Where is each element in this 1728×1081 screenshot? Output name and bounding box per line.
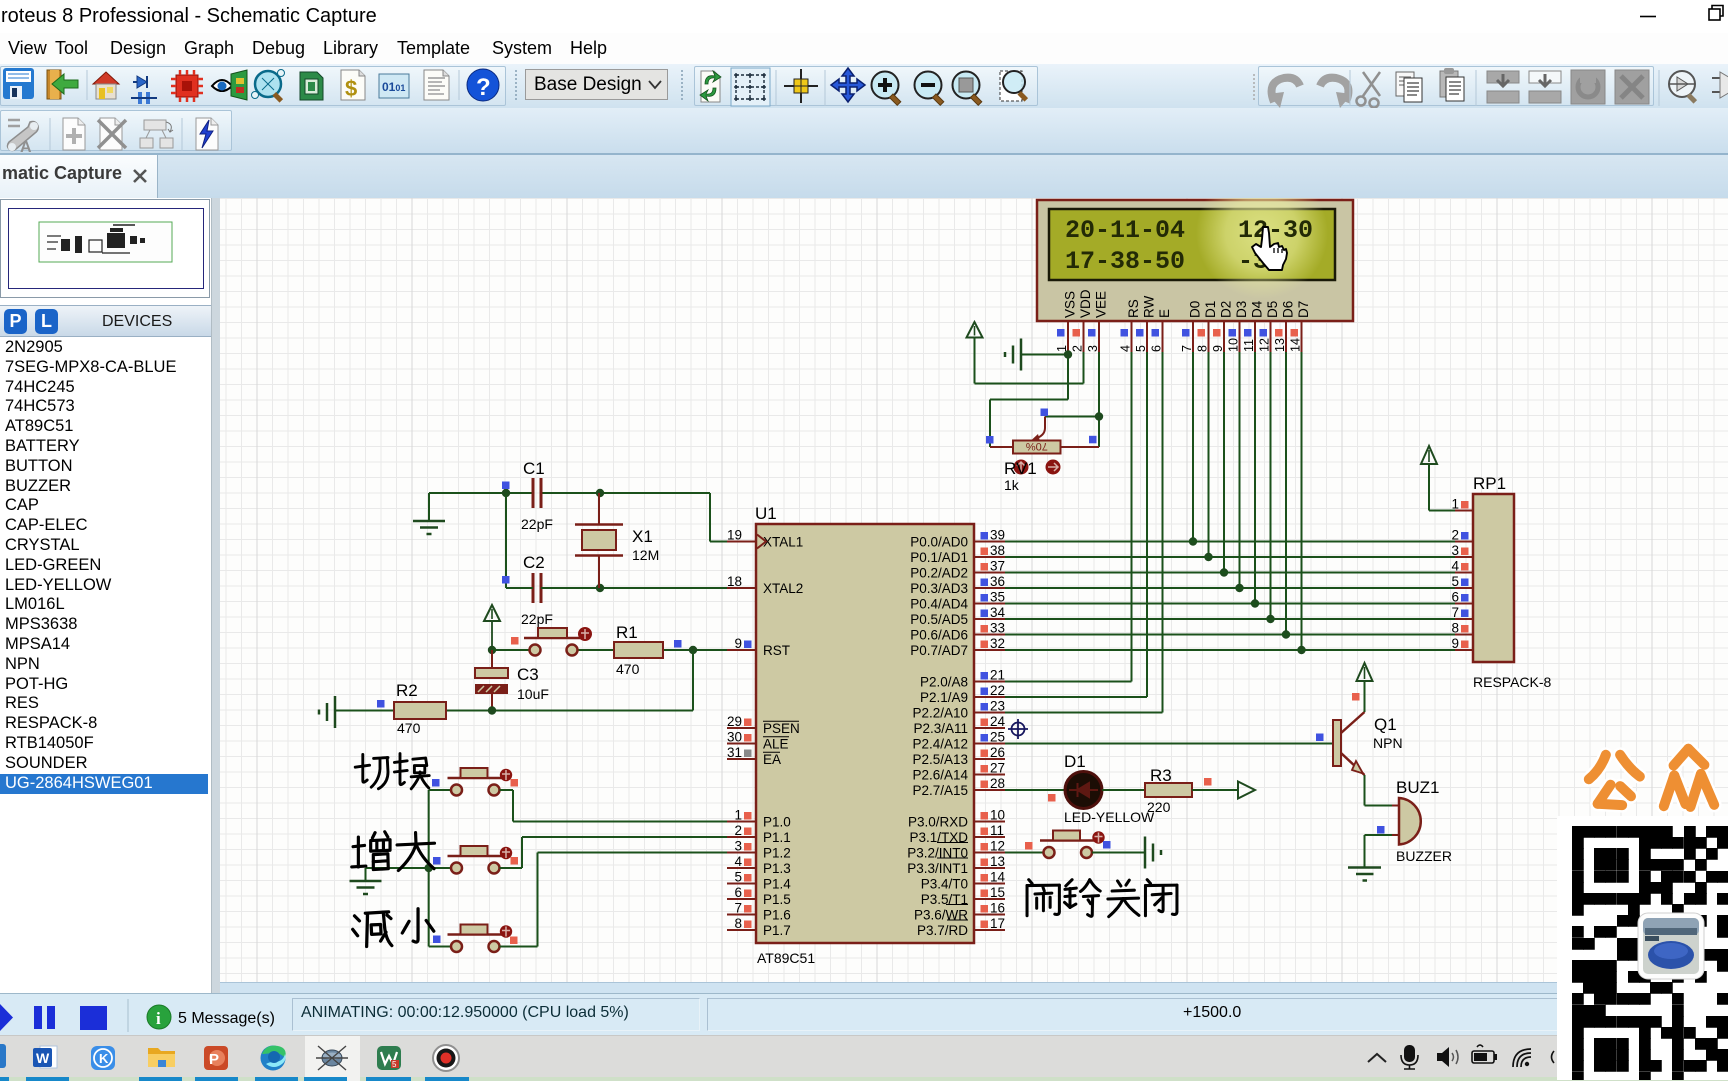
svg-text:PSEN: PSEN: [763, 721, 800, 736]
svg-text:P1.5: P1.5: [763, 892, 791, 907]
mouse glow highlight: [1196, 167, 1328, 299]
svg-text:K: K: [99, 1051, 109, 1066]
svg-text:P0.6/AD6: P0.6/AD6: [910, 627, 968, 642]
svg-text:P0.7/AD7: P0.7/AD7: [910, 643, 968, 658]
svg-text:36: 36: [990, 574, 1005, 589]
svg-text:34: 34: [990, 605, 1006, 620]
svg-text:U1: U1: [755, 504, 777, 523]
svg-text:7: 7: [1180, 345, 1194, 352]
svg-text:P2.3/A11: P2.3/A11: [913, 721, 968, 736]
svg-text:D1: D1: [1203, 301, 1218, 318]
svg-text:AT89C51: AT89C51: [757, 950, 815, 966]
svg-text:4: 4: [734, 854, 742, 869]
wire VDD net: [975, 338, 1084, 384]
svg-text:P1.3: P1.3: [763, 861, 791, 876]
wire E to P2.2: [1005, 352, 1163, 713]
svg-text:NPN: NPN: [1373, 735, 1403, 751]
svg-text:15: 15: [990, 885, 1005, 900]
svg-text:X1: X1: [632, 527, 653, 546]
svg-text:24: 24: [990, 714, 1006, 729]
svg-text:C1: C1: [523, 459, 545, 478]
svg-text:23: 23: [990, 699, 1005, 714]
svg-text:RST: RST: [763, 643, 790, 658]
svg-text:39: 39: [990, 528, 1005, 543]
svg-text:30: 30: [727, 730, 742, 745]
svg-text:3: 3: [734, 839, 742, 854]
svg-text:P2.6/A14: P2.6/A14: [912, 767, 968, 782]
svg-text:RESPACK-8: RESPACK-8: [1473, 674, 1552, 690]
ground below button rail: [350, 868, 382, 894]
wire Q1 emitter to buzzer: [1365, 775, 1393, 806]
svg-text:RP1: RP1: [1473, 474, 1506, 493]
svg-text:220: 220: [1147, 799, 1171, 815]
svg-text:16: 16: [990, 901, 1005, 916]
LCD text line 2 "17-38-50 -3": [1065, 247, 1268, 276]
LCD text line 1 "20-11-04 12-30": [1065, 216, 1313, 245]
resistor R2: [377, 700, 446, 719]
svg-text:P1.4: P1.4: [763, 876, 791, 891]
svg-text:D1: D1: [1064, 752, 1086, 771]
svg-text:P2.0/A8: P2.0/A8: [920, 674, 968, 689]
svg-text:BUZ1: BUZ1: [1396, 778, 1439, 797]
svg-text:D2: D2: [1219, 301, 1234, 318]
power terminal above Q1: [1357, 663, 1373, 681]
ground left of R2: [319, 696, 335, 728]
svg-text:11: 11: [990, 823, 1004, 838]
svg-text:35: 35: [990, 590, 1005, 605]
svg-text:P0.0/AD0: P0.0/AD0: [910, 534, 968, 549]
svg-text:6: 6: [1150, 345, 1164, 352]
ground near C1: [413, 493, 445, 534]
wire VSS net + junction: [990, 350, 1072, 447]
svg-text:P0.5/AD5: P0.5/AD5: [910, 612, 968, 627]
U1 right pin stubs, numbers and names: [907, 528, 1005, 938]
svg-text:9: 9: [734, 636, 742, 651]
potentiometer RV1: [986, 409, 1097, 475]
svg-text:12-30: 12-30: [1238, 216, 1313, 245]
svg-text:D7: D7: [1296, 301, 1311, 318]
wire R3 to output arrow: [1192, 789, 1238, 791]
wire P3.2 to alarm button: [1005, 852, 1043, 854]
wire R2 node: [336, 706, 693, 714]
wire D1 to R3: [1102, 789, 1145, 791]
svg-text:26: 26: [990, 745, 1005, 760]
svg-text:33: 33: [990, 621, 1005, 636]
LCD display LCD1 body: [1037, 200, 1353, 321]
wire C1-C2 link: [505, 493, 507, 588]
capacitor C1: [502, 478, 541, 508]
origin marker crosshair: [1008, 719, 1028, 739]
svg-text:22pF: 22pF: [521, 611, 553, 627]
svg-text:P1.1: P1.1: [763, 830, 791, 845]
svg-text:R3: R3: [1150, 766, 1172, 785]
svg-text:D0: D0: [1188, 301, 1203, 318]
svg-text:2: 2: [1451, 528, 1459, 543]
svg-text:P2.2/A10: P2.2/A10: [912, 705, 968, 720]
svg-text:37: 37: [990, 559, 1005, 574]
svg-text:VSS: VSS: [1063, 291, 1078, 318]
svg-text:13: 13: [990, 854, 1005, 869]
wire buzzer to ground: [1365, 835, 1393, 868]
svg-text:38: 38: [990, 543, 1005, 558]
svg-text:P3.0/RXD: P3.0/RXD: [908, 814, 968, 829]
svg-text:P1.2: P1.2: [763, 845, 791, 860]
button RESET: [511, 627, 592, 656]
svg-text:Q1: Q1: [1374, 715, 1397, 734]
wire XTAL2 net: [506, 584, 727, 592]
svg-text:31: 31: [727, 745, 742, 760]
microcontroller U1 body: [756, 524, 974, 943]
svg-text:1: 1: [734, 808, 742, 823]
ground near LCD VSS: [1005, 339, 1021, 371]
button SW1 (switch): [448, 768, 513, 796]
ground right of alarm button: [1145, 837, 1161, 869]
svg-text:32: 32: [990, 636, 1005, 651]
svg-text:ALE: ALE: [763, 736, 789, 751]
LED D1: [1048, 772, 1102, 809]
wire P2.4 to Q1 base: [1005, 734, 1333, 744]
svg-text:RW: RW: [1142, 295, 1157, 318]
U1 INT0/INT1/WR/RD overlines: [937, 843, 968, 921]
svg-text:P1.6: P1.6: [763, 907, 791, 922]
svg-text:D5: D5: [1265, 301, 1280, 318]
svg-text:7: 7: [734, 901, 742, 916]
power terminal above C3: [484, 605, 500, 650]
svg-text:P2.1/A9: P2.1/A9: [920, 690, 968, 705]
buzzer BUZ1: [1377, 798, 1421, 845]
svg-text:P0.1/AD1: P0.1/AD1: [910, 550, 968, 565]
LCD pin stubs, squares and pin numbers 1-14: [1055, 321, 1303, 352]
transistor Q1: [1333, 693, 1365, 775]
svg-text:470: 470: [616, 661, 640, 677]
U1 PSEN/ALE/EA overlines: [763, 721, 799, 752]
svg-text:i: i: [156, 1009, 161, 1028]
svg-text:R2: R2: [396, 681, 418, 700]
svg-text:W: W: [36, 1050, 50, 1066]
wire RST node: [488, 646, 727, 711]
svg-text:17-38-50: 17-38-50: [1065, 247, 1185, 276]
wire SW2 to P1.1: [500, 837, 728, 868]
LCD pin name labels: [1063, 289, 1312, 318]
svg-text:19: 19: [727, 528, 742, 543]
label 切换: [355, 754, 388, 788]
crystal X1: [575, 493, 623, 588]
capacitor C3: [475, 650, 508, 711]
svg-text:25: 25: [990, 730, 1005, 745]
svg-text:P2.5/A13: P2.5/A13: [912, 752, 968, 767]
svg-text:P0.2/AD2: P0.2/AD2: [910, 565, 968, 580]
svg-text:4: 4: [1119, 345, 1133, 352]
svg-text:P0.3/AD3: P0.3/AD3: [910, 581, 968, 596]
wire VEE net + junction: [1045, 352, 1103, 447]
svg-text:12M: 12M: [632, 547, 659, 563]
svg-text:10: 10: [1227, 338, 1241, 352]
svg-text:P3.4/T0: P3.4/T0: [921, 876, 968, 891]
svg-text:12: 12: [990, 839, 1005, 854]
svg-text:8: 8: [1451, 621, 1459, 636]
svg-text:5: 5: [392, 1060, 397, 1069]
wire alarm button to ground: [1092, 852, 1145, 854]
svg-text:E: E: [1157, 309, 1172, 318]
svg-text:5: 5: [1451, 574, 1459, 589]
svg-text:RS: RS: [1126, 299, 1141, 318]
resistor pack RP1: [1451, 494, 1514, 662]
wire RW to P2.1: [1005, 352, 1147, 697]
svg-text:C2: C2: [523, 553, 545, 572]
wire RP1 pin1 to power: [1429, 464, 1455, 511]
svg-text:1: 1: [1451, 497, 1459, 512]
wire button rail: [366, 790, 452, 947]
svg-text:29: 29: [727, 714, 742, 729]
svg-text:D3: D3: [1234, 301, 1249, 318]
svg-text:27: 27: [990, 761, 1005, 776]
svg-text:5 Message(s): 5 Message(s): [178, 1010, 275, 1027]
svg-text:P2.4/A12: P2.4/A12: [912, 736, 968, 751]
wire XTAL1 net: [429, 489, 727, 542]
resistor R1: [614, 640, 682, 658]
svg-text:2: 2: [734, 823, 742, 838]
svg-text:9: 9: [1451, 636, 1459, 651]
svg-text:3: 3: [1086, 345, 1100, 352]
svg-text:6: 6: [1451, 590, 1459, 605]
svg-text:10uF: 10uF: [517, 686, 549, 702]
label 闹铃关闭: [1027, 880, 1059, 916]
svg-text:4: 4: [1451, 559, 1459, 574]
label 公众 (orange): [1589, 749, 1714, 807]
svg-text:7: 7: [1451, 605, 1459, 620]
wire SW1 to P1.0: [500, 790, 728, 822]
svg-text:1k: 1k: [1004, 477, 1020, 493]
svg-text:RV1: RV1: [1004, 459, 1037, 478]
svg-text:12: 12: [1258, 338, 1272, 352]
output terminal arrow: [1238, 782, 1255, 799]
svg-text:P2.7/A15: P2.7/A15: [912, 783, 968, 798]
svg-text:XTAL1: XTAL1: [763, 534, 803, 549]
svg-text:P1.7: P1.7: [763, 923, 791, 938]
resistor R3: [1145, 778, 1212, 797]
svg-text:C3: C3: [517, 665, 539, 684]
svg-text:EA: EA: [763, 752, 781, 767]
svg-text:17: 17: [990, 916, 1005, 931]
wires D0-D7 to P0 bus with junctions: [1189, 352, 1306, 654]
capacitor C2: [502, 573, 541, 603]
svg-text:14: 14: [1289, 338, 1303, 352]
svg-text:14: 14: [990, 870, 1006, 885]
wire P2.7 to D1: [1005, 789, 1065, 791]
svg-text:21: 21: [990, 668, 1005, 683]
U1 left pin stubs, numbers and names: [727, 528, 803, 938]
svg-text:D6: D6: [1281, 301, 1296, 318]
svg-text:13: 13: [1273, 338, 1287, 352]
svg-text:R1: R1: [616, 623, 638, 642]
svg-text:28: 28: [990, 776, 1005, 791]
power terminal near LCD VDD: [967, 322, 983, 338]
svg-text:D4: D4: [1250, 300, 1265, 318]
svg-text:70%: 70%: [1026, 440, 1048, 452]
svg-text:18: 18: [727, 574, 742, 589]
wires P0.0-P0.7 bus to RP1: [1005, 542, 1455, 651]
svg-text:11: 11: [1242, 339, 1256, 352]
label 减小: [353, 912, 392, 947]
svg-text:5: 5: [1134, 345, 1148, 352]
svg-text:10: 10: [990, 808, 1005, 823]
svg-text:22pF: 22pF: [521, 516, 553, 532]
svg-text:470: 470: [397, 720, 421, 736]
svg-text:8: 8: [1196, 345, 1210, 352]
svg-text:3: 3: [1451, 543, 1459, 558]
svg-text:BUZZER: BUZZER: [1396, 848, 1452, 864]
svg-text:2: 2: [1071, 345, 1085, 352]
svg-text:P3.7/RD: P3.7/RD: [917, 923, 968, 938]
wire Q1 collector to power: [1364, 681, 1366, 712]
svg-text:6: 6: [734, 885, 742, 900]
svg-text:XTAL2: XTAL2: [763, 581, 803, 596]
svg-text:VDD: VDD: [1078, 289, 1093, 318]
svg-text:P3.3/INT1: P3.3/INT1: [907, 861, 968, 876]
wire RS to P2.0: [1005, 352, 1132, 682]
ground below buzzer: [1348, 868, 1381, 881]
svg-text:LED-YELLOW: LED-YELLOW: [1064, 809, 1155, 825]
button SW2 (increase): [448, 846, 513, 874]
power terminal above RP1: [1421, 446, 1437, 464]
svg-text:22: 22: [990, 683, 1005, 698]
svg-text:8: 8: [734, 916, 742, 931]
svg-text:VEE: VEE: [1094, 291, 1109, 318]
svg-text:9: 9: [1211, 345, 1225, 352]
button SW3 (decrease): [448, 925, 513, 953]
U1 XTAL1 clock chevron: [757, 535, 766, 549]
button SW4 (alarm off): [1040, 831, 1105, 859]
svg-text:P1.0: P1.0: [763, 814, 791, 829]
svg-text:P0.4/AD4: P0.4/AD4: [910, 596, 968, 611]
wire SW3 to P1.2: [500, 853, 728, 947]
mouse hand cursor: [1252, 227, 1287, 270]
svg-text:P: P: [209, 1051, 219, 1068]
label 增大: [352, 832, 390, 870]
svg-text:5: 5: [734, 870, 742, 885]
svg-text:20-11-04: 20-11-04: [1065, 216, 1185, 245]
